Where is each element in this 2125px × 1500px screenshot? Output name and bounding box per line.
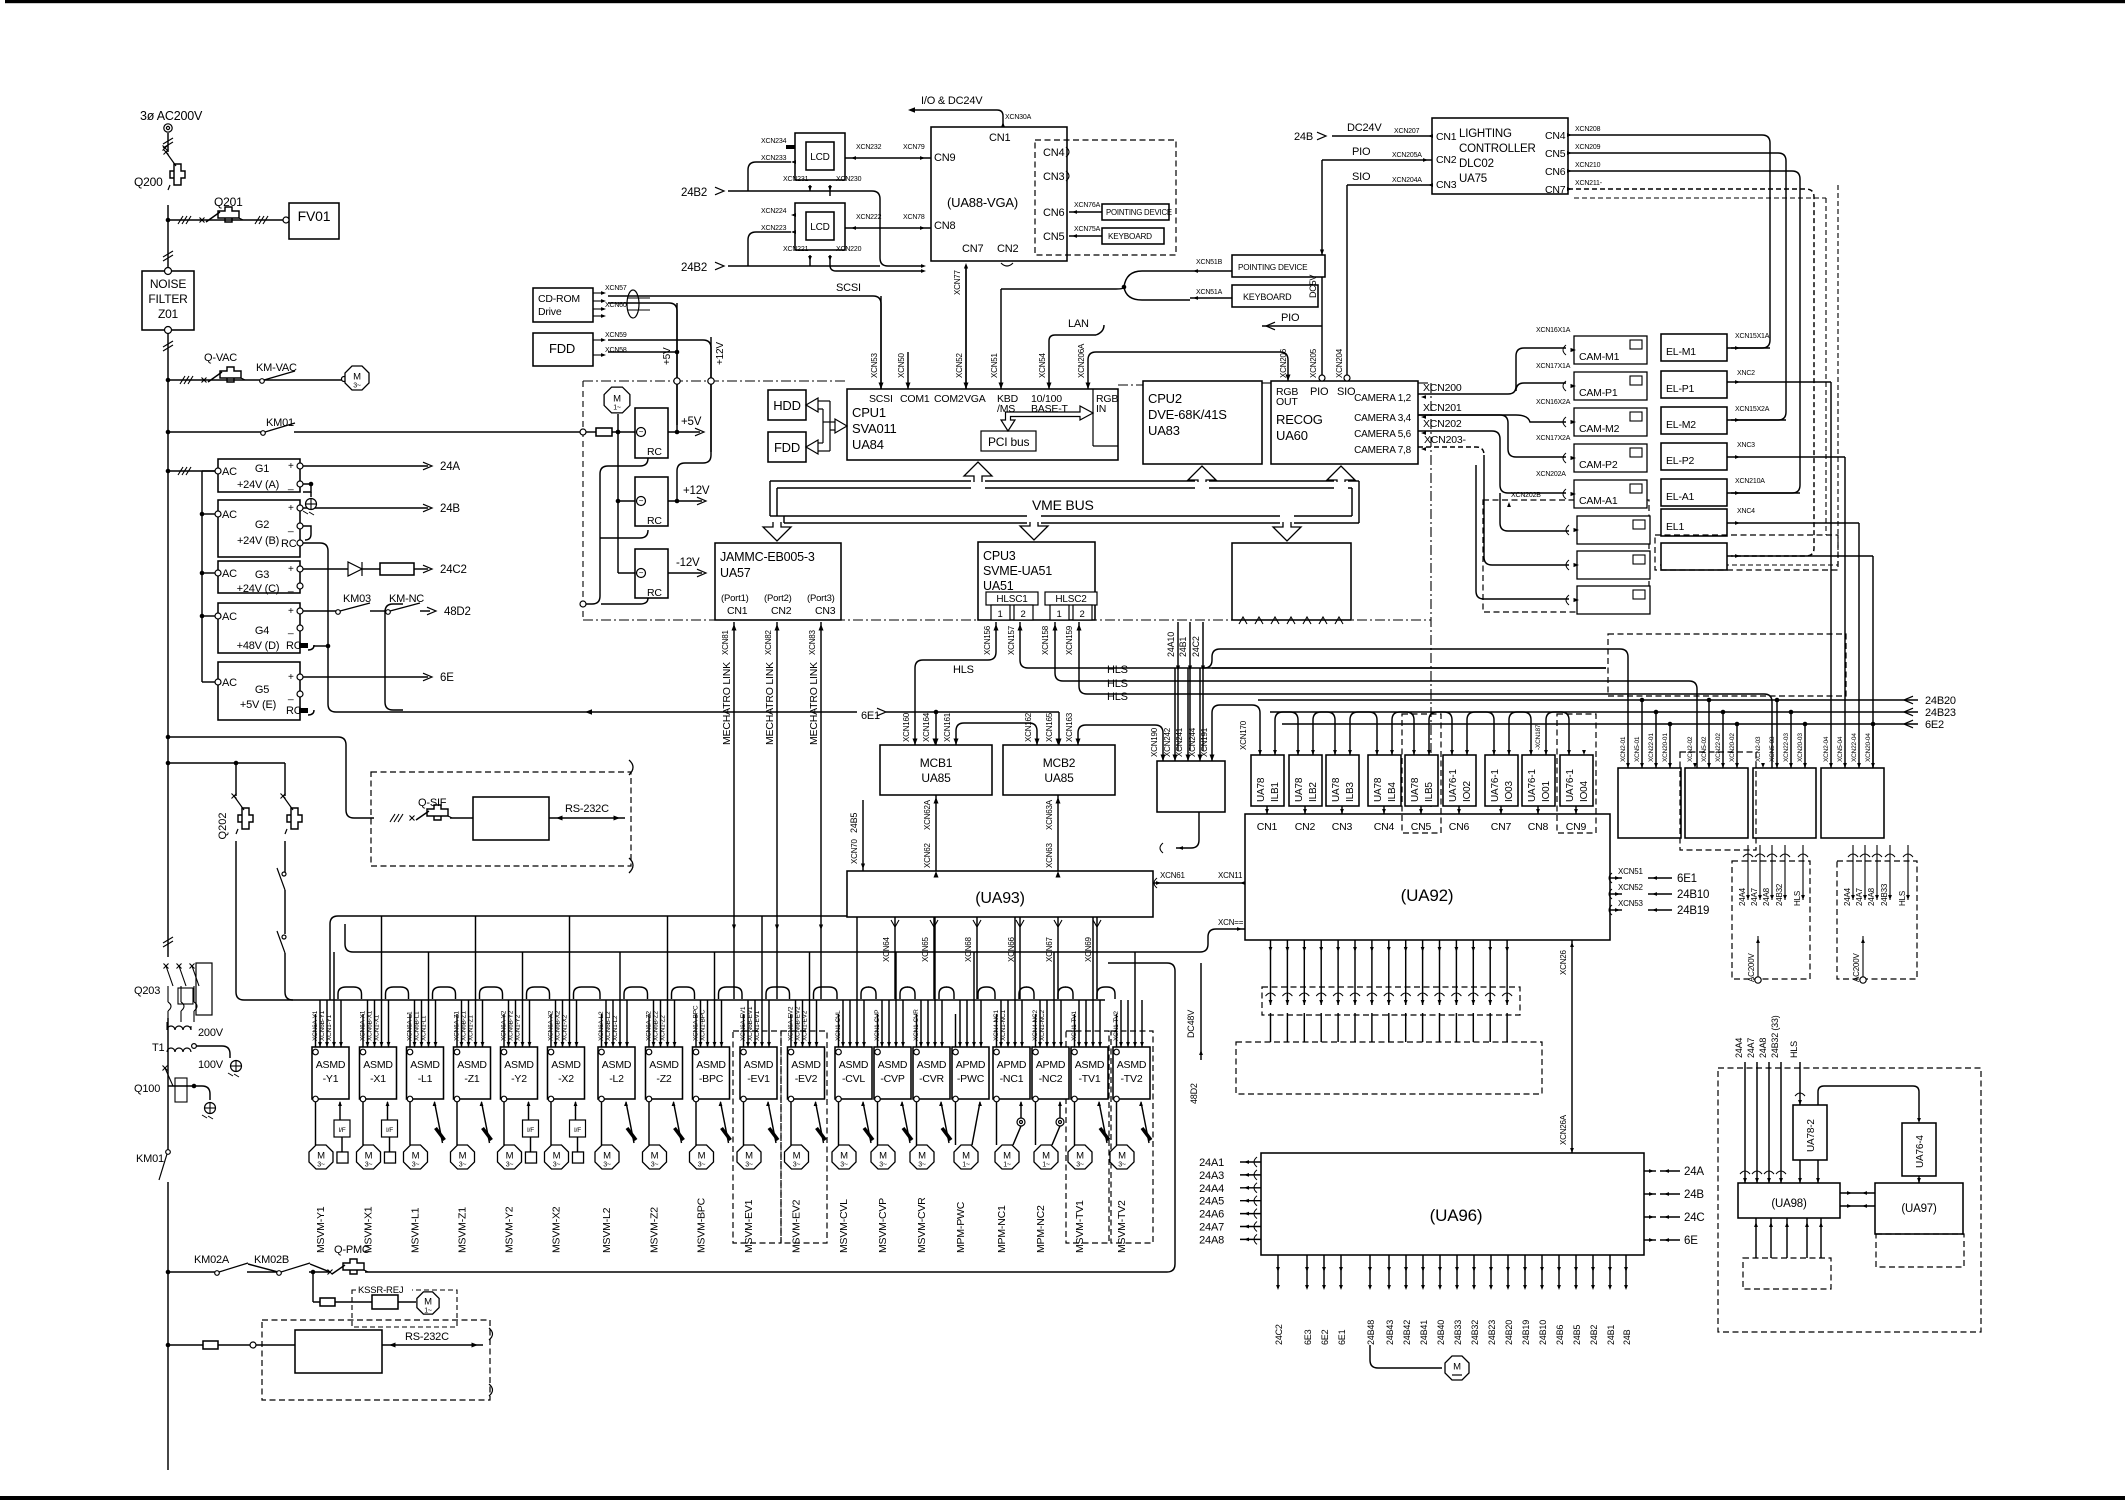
svg-text:XCN16X1A: XCN16X1A bbox=[1536, 327, 1571, 334]
svg-text:XCN53: XCN53 bbox=[1618, 899, 1644, 908]
svg-text:MSVM-CVL: MSVM-CVL bbox=[838, 1199, 850, 1253]
svg-text:1: 1 bbox=[1056, 609, 1061, 620]
svg-text:48D2: 48D2 bbox=[1189, 1083, 1199, 1104]
svg-text:XCN232: XCN232 bbox=[856, 144, 882, 151]
svg-text:(UA97): (UA97) bbox=[1901, 1203, 1937, 1215]
svg-text:XCN5-02: XCN5-02 bbox=[1701, 736, 1708, 762]
svg-text:CN2: CN2 bbox=[1436, 154, 1457, 166]
svg-text:XCN6A-Y2: XCN6A-Y2 bbox=[501, 1010, 508, 1041]
svg-text:XCN222: XCN222 bbox=[856, 214, 882, 221]
svg-text:XCN59: XCN59 bbox=[605, 332, 627, 339]
svg-text:ASMD: ASMD bbox=[744, 1059, 774, 1071]
svg-text:24B42: 24B42 bbox=[1402, 1320, 1412, 1345]
svg-text:24A8: 24A8 bbox=[1867, 887, 1876, 906]
svg-text:XCN221: XCN221 bbox=[783, 246, 809, 253]
svg-text:+24V (C): +24V (C) bbox=[237, 583, 280, 595]
svg-text:FILTER: FILTER bbox=[148, 292, 188, 306]
svg-text:M: M bbox=[651, 1151, 659, 1162]
svg-text:XCN50: XCN50 bbox=[897, 352, 906, 378]
svg-text:XCN162: XCN162 bbox=[1024, 712, 1033, 742]
svg-text:XCN206A: XCN206A bbox=[1077, 343, 1086, 378]
svg-text:24B33: 24B33 bbox=[1453, 1320, 1463, 1345]
svg-text:M: M bbox=[1118, 1151, 1126, 1162]
svg-text:CN4: CN4 bbox=[1043, 147, 1064, 159]
svg-text:XCN1-X2: XCN1-X2 bbox=[562, 1014, 569, 1041]
svg-text:M: M bbox=[962, 1151, 970, 1162]
svg-text:M: M bbox=[793, 1151, 801, 1162]
svg-text:24A4: 24A4 bbox=[1843, 887, 1852, 906]
svg-text:CONTROLLER: CONTROLLER bbox=[1459, 143, 1536, 155]
svg-text:XCN6A-EV2: XCN6A-EV2 bbox=[788, 1006, 795, 1041]
svg-text:UA76-1: UA76-1 bbox=[1527, 769, 1538, 802]
svg-text:24A7: 24A7 bbox=[1746, 1038, 1756, 1058]
svg-text:ASMD: ASMD bbox=[504, 1059, 534, 1071]
svg-text:HLS: HLS bbox=[1898, 891, 1907, 906]
svg-text:I/F: I/F bbox=[339, 1127, 346, 1134]
svg-text:AC: AC bbox=[222, 568, 237, 580]
svg-text:2: 2 bbox=[1079, 609, 1084, 620]
svg-text:ASMD: ASMD bbox=[839, 1059, 869, 1071]
svg-text:XCN5-03: XCN5-03 bbox=[1769, 736, 1776, 762]
svg-text:1~: 1~ bbox=[613, 405, 621, 412]
svg-text:CN6: CN6 bbox=[1545, 166, 1566, 178]
svg-text:24A: 24A bbox=[1684, 1166, 1704, 1178]
svg-text:_: _ bbox=[287, 480, 294, 491]
svg-text:UA78: UA78 bbox=[1373, 777, 1384, 802]
svg-text:CN3: CN3 bbox=[1436, 179, 1457, 191]
svg-text:XCN223: XCN223 bbox=[761, 225, 787, 232]
svg-text:I/F: I/F bbox=[386, 1127, 393, 1134]
svg-text:2: 2 bbox=[1020, 609, 1025, 620]
svg-text:24A6: 24A6 bbox=[1199, 1209, 1224, 1221]
svg-text:XCN6A-BPC: XCN6A-BPC bbox=[693, 1005, 700, 1041]
svg-text:-BPC: -BPC bbox=[699, 1073, 724, 1085]
svg-text:24A4: 24A4 bbox=[1734, 1038, 1744, 1058]
svg-text:POINTING DEVICE: POINTING DEVICE bbox=[1106, 208, 1172, 217]
svg-text:-CVR: -CVR bbox=[919, 1073, 944, 1085]
svg-text:M: M bbox=[424, 1297, 432, 1308]
svg-text:ASMD: ASMD bbox=[791, 1059, 821, 1071]
svg-text:24A8: 24A8 bbox=[1762, 887, 1771, 906]
svg-text:DVE-68K/41S: DVE-68K/41S bbox=[1148, 407, 1227, 422]
svg-text:Q-VAC: Q-VAC bbox=[204, 352, 237, 364]
svg-text:XCN204A: XCN204A bbox=[1392, 177, 1422, 184]
svg-text:UA76-4: UA76-4 bbox=[1915, 1135, 1926, 1168]
svg-text:UA78: UA78 bbox=[1410, 777, 1421, 802]
svg-text:MSVM-TV2: MSVM-TV2 bbox=[1116, 1200, 1128, 1253]
svg-text:HDD: HDD bbox=[773, 398, 801, 413]
svg-text:-PWC: -PWC bbox=[957, 1073, 985, 1085]
svg-text:XCN6B-L2: XCN6B-L2 bbox=[605, 1011, 612, 1041]
svg-text:XCN2-04: XCN2-04 bbox=[1823, 736, 1830, 762]
svg-text:XCN17X1A: XCN17X1A bbox=[1536, 363, 1571, 370]
svg-text:CN8: CN8 bbox=[1528, 821, 1549, 833]
svg-text:24A: 24A bbox=[440, 461, 460, 473]
svg-text:XCN17X2A: XCN17X2A bbox=[1536, 435, 1571, 442]
svg-text:G2: G2 bbox=[255, 519, 269, 531]
svg-text:3~: 3~ bbox=[459, 1162, 467, 1169]
svg-text:24A7: 24A7 bbox=[1750, 887, 1759, 906]
svg-text:FV01: FV01 bbox=[298, 208, 331, 224]
svg-text:XCN5-01: XCN5-01 bbox=[1634, 736, 1641, 762]
svg-text:KEYBOARD: KEYBOARD bbox=[1243, 292, 1292, 302]
svg-text:~: ~ bbox=[639, 497, 644, 506]
svg-text:EL-P1: EL-P1 bbox=[1666, 383, 1695, 395]
svg-text:MSVM-Y2: MSVM-Y2 bbox=[504, 1206, 516, 1253]
svg-text:3~: 3~ bbox=[317, 1162, 325, 1169]
svg-text:3~: 3~ bbox=[918, 1162, 926, 1169]
svg-text:M: M bbox=[918, 1151, 926, 1162]
svg-text:XCN1-X1: XCN1-X1 bbox=[374, 1014, 381, 1041]
svg-text:24B20: 24B20 bbox=[1925, 695, 1956, 707]
svg-text:+12V: +12V bbox=[683, 485, 710, 497]
svg-text:6E3: 6E3 bbox=[1303, 1329, 1313, 1345]
svg-text:_: _ bbox=[287, 522, 294, 533]
svg-text:MSVM-X1: MSVM-X1 bbox=[363, 1206, 375, 1253]
svg-text:EL-M1: EL-M1 bbox=[1666, 346, 1696, 358]
svg-text:UA84: UA84 bbox=[852, 437, 884, 452]
svg-text:24B23: 24B23 bbox=[1487, 1320, 1497, 1345]
svg-text:XCN15X2A: XCN15X2A bbox=[1735, 406, 1770, 413]
svg-text:-XCN187: -XCN187 bbox=[1535, 724, 1542, 750]
svg-text:XCN156: XCN156 bbox=[983, 625, 992, 655]
svg-text:XCN233: XCN233 bbox=[761, 155, 787, 162]
svg-text:XCN20-04: XCN20-04 bbox=[1865, 733, 1872, 762]
svg-text:LIGHTING: LIGHTING bbox=[1459, 128, 1512, 140]
svg-text:EL-P2: EL-P2 bbox=[1666, 455, 1695, 467]
svg-text:(UA93): (UA93) bbox=[975, 890, 1024, 907]
svg-text:XCN20-02: XCN20-02 bbox=[1729, 733, 1736, 762]
svg-text:RC: RC bbox=[281, 538, 297, 550]
svg-text:ASMD: ASMD bbox=[602, 1059, 632, 1071]
svg-text:CN2: CN2 bbox=[997, 243, 1018, 255]
svg-text:EL-M2: EL-M2 bbox=[1666, 419, 1696, 431]
svg-text:XCN202: XCN202 bbox=[1423, 418, 1462, 430]
svg-text:RS-232C: RS-232C bbox=[405, 1331, 449, 1343]
svg-text:UA51: UA51 bbox=[983, 579, 1014, 593]
svg-text:MPM-NC1: MPM-NC1 bbox=[996, 1205, 1008, 1253]
svg-text:XCN244: XCN244 bbox=[1188, 727, 1197, 757]
svg-text:24B6: 24B6 bbox=[1555, 1325, 1565, 1345]
svg-text:(UA88-VGA): (UA88-VGA) bbox=[947, 195, 1018, 210]
svg-text:6E1: 6E1 bbox=[1677, 873, 1697, 885]
svg-text:XCN1-CVP: XCN1-CVP bbox=[874, 1010, 881, 1041]
svg-text:+5V: +5V bbox=[662, 347, 673, 365]
svg-text:24C2: 24C2 bbox=[1191, 636, 1201, 657]
svg-text:ASMD: ASMD bbox=[457, 1059, 487, 1071]
svg-text:100V: 100V bbox=[198, 1059, 224, 1071]
svg-text:ASMD: ASMD bbox=[878, 1059, 908, 1071]
svg-text:XCN5-04: XCN5-04 bbox=[1837, 736, 1844, 762]
svg-text:1~: 1~ bbox=[1042, 1162, 1050, 1169]
svg-text:APMD: APMD bbox=[997, 1059, 1027, 1071]
svg-text:SCSI: SCSI bbox=[869, 393, 893, 405]
svg-text:-CVL: -CVL bbox=[842, 1073, 865, 1085]
svg-text:24A8: 24A8 bbox=[1199, 1234, 1224, 1246]
svg-text:3~: 3~ bbox=[651, 1162, 659, 1169]
svg-text:XCN1-CVR: XCN1-CVR bbox=[913, 1009, 920, 1041]
svg-text:IO04: IO04 bbox=[1579, 780, 1590, 802]
svg-text:24B43: 24B43 bbox=[1385, 1320, 1395, 1345]
svg-text:G5: G5 bbox=[255, 684, 269, 696]
svg-text:FDD: FDD bbox=[549, 341, 575, 356]
svg-text:XCN52: XCN52 bbox=[955, 352, 964, 378]
svg-text:ASMD: ASMD bbox=[363, 1059, 393, 1071]
svg-text:6E2: 6E2 bbox=[1320, 1329, 1330, 1345]
svg-text:200V: 200V bbox=[198, 1027, 224, 1039]
svg-text:MSVM-BPC: MSVM-BPC bbox=[696, 1197, 708, 1253]
svg-text:24B41: 24B41 bbox=[1419, 1320, 1429, 1345]
svg-text:MCB1: MCB1 bbox=[920, 756, 953, 770]
svg-text:~: ~ bbox=[639, 428, 644, 437]
svg-text:XCN51: XCN51 bbox=[990, 352, 999, 378]
svg-text:XCN230: XCN230 bbox=[836, 176, 862, 183]
svg-text:PIO: PIO bbox=[1310, 386, 1329, 398]
svg-text:CN4: CN4 bbox=[1545, 130, 1566, 142]
svg-text:XCN209: XCN209 bbox=[1575, 144, 1601, 151]
svg-text:XCN191: XCN191 bbox=[1200, 727, 1209, 757]
svg-text:SIO: SIO bbox=[1352, 171, 1371, 183]
svg-text:XCN1-NC2: XCN1-NC2 bbox=[1039, 1010, 1046, 1041]
svg-text:24B48: 24B48 bbox=[1366, 1320, 1376, 1345]
svg-text:-TV1: -TV1 bbox=[1079, 1073, 1101, 1085]
svg-text:XCN6A-X1: XCN6A-X1 bbox=[360, 1010, 367, 1041]
svg-text:UA85: UA85 bbox=[921, 771, 951, 785]
svg-text:XCN6A-Z1: XCN6A-Z1 bbox=[454, 1011, 461, 1041]
svg-text:XCN202B: XCN202B bbox=[1511, 492, 1541, 499]
svg-text:AC: AC bbox=[222, 509, 237, 521]
svg-text:6E: 6E bbox=[440, 672, 454, 684]
svg-text:XCN26A: XCN26A bbox=[1559, 1114, 1568, 1145]
svg-text:1~: 1~ bbox=[962, 1162, 970, 1169]
svg-text:AC: AC bbox=[222, 677, 237, 689]
svg-text:XCN51B: XCN51B bbox=[1196, 259, 1223, 266]
svg-text:24B: 24B bbox=[1622, 1329, 1632, 1345]
svg-text:1~: 1~ bbox=[1003, 1162, 1011, 1169]
svg-text:CN7: CN7 bbox=[1491, 821, 1512, 833]
svg-text:(UA92): (UA92) bbox=[1401, 886, 1454, 905]
svg-text:ASMD: ASMD bbox=[410, 1059, 440, 1071]
svg-text:CN8: CN8 bbox=[934, 220, 955, 232]
svg-text:-CVP: -CVP bbox=[880, 1073, 904, 1085]
svg-text:3~: 3~ bbox=[840, 1162, 848, 1169]
svg-text:XCN6A-L1: XCN6A-L1 bbox=[407, 1011, 414, 1041]
svg-text:ILB4: ILB4 bbox=[1387, 782, 1398, 802]
svg-text:-X2: -X2 bbox=[558, 1073, 574, 1085]
svg-text:MSVM-EV2: MSVM-EV2 bbox=[791, 1199, 803, 1253]
svg-text:MSVM-L1: MSVM-L1 bbox=[410, 1207, 422, 1253]
svg-text:XCN22-04: XCN22-04 bbox=[1851, 733, 1858, 762]
svg-text:COM2: COM2 bbox=[934, 393, 964, 405]
svg-text:XCN75A: XCN75A bbox=[1074, 226, 1101, 233]
svg-text:XCN26: XCN26 bbox=[1559, 949, 1568, 975]
svg-text:MSVM-Y1: MSVM-Y1 bbox=[315, 1206, 327, 1253]
svg-text:XNC2: XNC2 bbox=[1737, 370, 1755, 377]
svg-text:XCN81: XCN81 bbox=[721, 629, 730, 655]
svg-text:CN6: CN6 bbox=[1449, 821, 1470, 833]
svg-text:XCN16X2A: XCN16X2A bbox=[1536, 399, 1571, 406]
svg-text:MPM-NC2: MPM-NC2 bbox=[1035, 1205, 1047, 1253]
svg-text:-EV1: -EV1 bbox=[747, 1073, 770, 1085]
svg-text:CPU1: CPU1 bbox=[852, 405, 886, 420]
svg-text:G1: G1 bbox=[255, 463, 269, 475]
svg-text:OUT: OUT bbox=[1276, 396, 1298, 408]
svg-text:XCN67: XCN67 bbox=[1045, 936, 1054, 962]
svg-text:XCN190: XCN190 bbox=[1150, 727, 1159, 757]
svg-text:PCI bus: PCI bus bbox=[988, 435, 1029, 449]
svg-text:SVME-UA51: SVME-UA51 bbox=[983, 564, 1052, 578]
svg-text:CN7: CN7 bbox=[962, 243, 983, 255]
svg-text:(Port3): (Port3) bbox=[807, 593, 835, 604]
svg-text:XCN22-01: XCN22-01 bbox=[1648, 733, 1655, 762]
svg-text:M: M bbox=[459, 1151, 467, 1162]
svg-text:UA78-2: UA78-2 bbox=[1806, 1119, 1817, 1152]
svg-text:ILB1: ILB1 bbox=[1270, 782, 1281, 802]
svg-text:I/F: I/F bbox=[574, 1127, 581, 1134]
svg-text:Q201: Q201 bbox=[214, 195, 243, 209]
svg-text:XCN210: XCN210 bbox=[1575, 162, 1601, 169]
svg-text:UA75: UA75 bbox=[1459, 173, 1487, 185]
svg-text:-Y1: -Y1 bbox=[323, 1073, 339, 1085]
svg-text:I/O & DC24V: I/O & DC24V bbox=[921, 95, 983, 107]
svg-text:3~: 3~ bbox=[745, 1162, 753, 1169]
svg-text:24A4: 24A4 bbox=[1738, 887, 1747, 906]
svg-text:CN7: CN7 bbox=[1545, 184, 1566, 196]
svg-text:RC: RC bbox=[647, 587, 662, 599]
svg-text:M: M bbox=[365, 1151, 373, 1162]
svg-text:G3: G3 bbox=[255, 569, 269, 581]
svg-text:24A7: 24A7 bbox=[1855, 887, 1864, 906]
svg-text:FDD: FDD bbox=[774, 440, 800, 455]
svg-text:HLS: HLS bbox=[953, 664, 974, 676]
svg-text:Q200: Q200 bbox=[134, 175, 163, 189]
svg-text:I/F: I/F bbox=[527, 1127, 534, 1134]
svg-text:6E2: 6E2 bbox=[1925, 719, 1944, 731]
svg-text:XCN205A: XCN205A bbox=[1392, 152, 1422, 159]
svg-text:1~: 1~ bbox=[424, 1308, 432, 1315]
svg-text:CN2: CN2 bbox=[1295, 821, 1316, 833]
svg-text:LAN: LAN bbox=[1068, 318, 1089, 330]
svg-text:M: M bbox=[1003, 1151, 1011, 1162]
svg-text:XCN159: XCN159 bbox=[1065, 625, 1074, 655]
svg-text:CN5: CN5 bbox=[1043, 231, 1064, 243]
svg-text:+: + bbox=[288, 503, 294, 514]
svg-text:XCN157: XCN157 bbox=[1007, 625, 1016, 655]
svg-text:XCN6A-Z2: XCN6A-Z2 bbox=[646, 1011, 653, 1041]
svg-text:IN: IN bbox=[1096, 403, 1106, 415]
svg-text:XCN241: XCN241 bbox=[1175, 727, 1184, 757]
svg-text:XCN161: XCN161 bbox=[943, 712, 952, 742]
svg-text:EL-A1: EL-A1 bbox=[1666, 491, 1695, 503]
svg-text:+: + bbox=[288, 672, 294, 683]
svg-text:XCN1-EV1: XCN1-EV1 bbox=[754, 1010, 761, 1041]
svg-text:XCN206: XCN206 bbox=[1279, 348, 1288, 378]
svg-text:Q203: Q203 bbox=[134, 985, 160, 997]
svg-text:XCN1-L1: XCN1-L1 bbox=[421, 1015, 428, 1041]
svg-text:3~: 3~ bbox=[793, 1162, 801, 1169]
svg-text:XCN82: XCN82 bbox=[764, 629, 773, 655]
svg-text:M: M bbox=[1453, 1362, 1461, 1373]
svg-text:_: _ bbox=[287, 582, 294, 593]
svg-text:24B1: 24B1 bbox=[1178, 637, 1188, 657]
svg-text:6E1: 6E1 bbox=[1337, 1329, 1347, 1345]
svg-text:CAMERA 3,4: CAMERA 3,4 bbox=[1354, 413, 1412, 424]
svg-text:PIO: PIO bbox=[1281, 312, 1300, 324]
svg-text:Q202: Q202 bbox=[217, 813, 229, 840]
svg-text:+: + bbox=[288, 461, 294, 472]
svg-text:XCN1-Z2: XCN1-Z2 bbox=[660, 1015, 667, 1041]
svg-text:HLSC2: HLSC2 bbox=[1055, 594, 1087, 605]
svg-text:24B19: 24B19 bbox=[1521, 1320, 1531, 1345]
svg-text:XCN210A: XCN210A bbox=[1735, 478, 1765, 485]
svg-text:MECHATRO LINK: MECHATRO LINK bbox=[721, 662, 733, 745]
svg-text:CPU2: CPU2 bbox=[1148, 391, 1182, 406]
svg-text:3~: 3~ bbox=[1076, 1162, 1084, 1169]
svg-text:24B2: 24B2 bbox=[1589, 1325, 1599, 1345]
svg-text:ILB2: ILB2 bbox=[1308, 782, 1319, 802]
svg-text:XCN220: XCN220 bbox=[836, 246, 862, 253]
svg-text:24B32: 24B32 bbox=[1775, 883, 1784, 906]
svg-text:UA76-1: UA76-1 bbox=[1448, 769, 1459, 802]
svg-text:VME BUS: VME BUS bbox=[1032, 497, 1094, 513]
svg-text:XCN4-NC2: XCN4-NC2 bbox=[1032, 1010, 1039, 1041]
svg-text:XCN60: XCN60 bbox=[605, 302, 627, 309]
svg-text:24A10: 24A10 bbox=[1166, 632, 1176, 657]
svg-text:24B1: 24B1 bbox=[1606, 1325, 1616, 1345]
svg-text:XCN203-: XCN203- bbox=[1424, 434, 1466, 446]
svg-text:ILB3: ILB3 bbox=[1345, 782, 1356, 802]
svg-text:KM02B: KM02B bbox=[254, 1254, 289, 1266]
svg-text:XCN164: XCN164 bbox=[922, 712, 931, 742]
svg-text:XCN170: XCN170 bbox=[1239, 720, 1248, 750]
svg-text:KEYBOARD: KEYBOARD bbox=[1108, 232, 1152, 241]
svg-text:24B5: 24B5 bbox=[849, 813, 859, 833]
svg-text:XCN1-Y2: XCN1-Y2 bbox=[515, 1014, 522, 1041]
svg-text:CN3: CN3 bbox=[815, 605, 836, 617]
svg-text:PIO: PIO bbox=[1352, 146, 1371, 158]
svg-text:POINTING DEVICE: POINTING DEVICE bbox=[1238, 263, 1308, 272]
svg-text:48D2: 48D2 bbox=[444, 606, 471, 618]
svg-text:KSSR-REJ: KSSR-REJ bbox=[358, 1285, 404, 1296]
svg-text:24B10: 24B10 bbox=[1538, 1320, 1548, 1345]
svg-text:XCN208: XCN208 bbox=[1575, 126, 1601, 133]
svg-text:-X1: -X1 bbox=[370, 1073, 386, 1085]
svg-text:+12V: +12V bbox=[715, 342, 726, 365]
svg-text:UA76-1: UA76-1 bbox=[1490, 769, 1501, 802]
svg-text:XCN69: XCN69 bbox=[1084, 936, 1093, 962]
svg-text:XCN1-TV2: XCN1-TV2 bbox=[1113, 1011, 1120, 1041]
svg-text:+48V (D): +48V (D) bbox=[237, 640, 280, 652]
svg-text:LCD: LCD bbox=[810, 152, 829, 163]
svg-text:CN2: CN2 bbox=[771, 605, 792, 617]
svg-text:24B32: 24B32 bbox=[1470, 1320, 1480, 1345]
svg-text:VGA: VGA bbox=[964, 393, 986, 405]
svg-text:(UA98): (UA98) bbox=[1771, 1198, 1807, 1210]
svg-text:MCB2: MCB2 bbox=[1043, 756, 1076, 770]
svg-text:_: _ bbox=[287, 690, 294, 701]
svg-text:XNC4: XNC4 bbox=[1737, 508, 1755, 515]
svg-text:CN9: CN9 bbox=[1566, 821, 1587, 833]
svg-text:24A3: 24A3 bbox=[1199, 1170, 1224, 1182]
svg-text:-Y2: -Y2 bbox=[511, 1073, 527, 1085]
svg-text:AC: AC bbox=[222, 611, 237, 623]
svg-text:24B33: 24B33 bbox=[1880, 883, 1889, 906]
svg-text:KM02A: KM02A bbox=[194, 1254, 230, 1266]
svg-text:XCN64: XCN64 bbox=[882, 936, 891, 962]
svg-text:M: M bbox=[840, 1151, 848, 1162]
svg-text:MSVM-Z2: MSVM-Z2 bbox=[649, 1207, 661, 1253]
svg-text:XCN202A: XCN202A bbox=[1536, 471, 1566, 478]
